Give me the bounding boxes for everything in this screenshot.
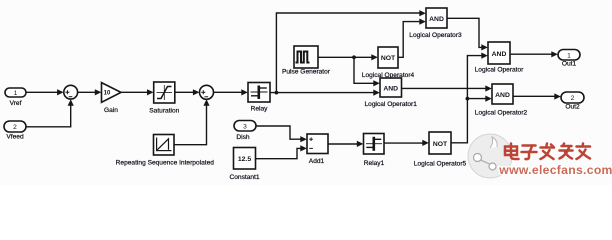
svg-text:Repeating Sequence Interpolate: Repeating Sequence Interpolated [116, 159, 215, 166]
svg-text:AND: AND [383, 85, 398, 92]
svg-text:Relay1: Relay1 [364, 160, 385, 167]
svg-text:Logical Operator5: Logical Operator5 [414, 161, 467, 168]
svg-text:2: 2 [571, 95, 575, 102]
svg-text:Dish: Dish [236, 134, 250, 141]
svg-text:Logical Operator2: Logical Operator2 [475, 110, 528, 117]
svg-text:Constant1: Constant1 [229, 174, 259, 181]
svg-text:Gain: Gain [104, 107, 118, 114]
svg-text:Logical Operator1: Logical Operator1 [364, 101, 417, 108]
svg-text:Add1: Add1 [309, 158, 325, 165]
svg-text:AND: AND [429, 16, 444, 23]
svg-text:10: 10 [104, 91, 111, 97]
svg-text:Logical Operator4: Logical Operator4 [362, 72, 415, 79]
svg-text:1: 1 [567, 53, 571, 60]
svg-text:2: 2 [13, 124, 17, 131]
svg-text:Out2: Out2 [565, 103, 580, 110]
svg-text:AND: AND [492, 51, 507, 58]
svg-text:3: 3 [243, 124, 247, 131]
svg-text:www.elecfans.com: www.elecfans.com [498, 163, 612, 177]
svg-text:NOT: NOT [433, 141, 448, 148]
svg-text:AND: AND [495, 92, 510, 99]
svg-text:Vref: Vref [10, 100, 22, 107]
svg-text:12.5: 12.5 [238, 156, 251, 163]
svg-text:1: 1 [14, 90, 18, 97]
svg-text:Logical Operator: Logical Operator [475, 67, 525, 74]
svg-text:Relay: Relay [251, 106, 269, 113]
svg-text:Logical Operator3: Logical Operator3 [409, 32, 462, 39]
svg-text:Pulse Generator: Pulse Generator [282, 68, 331, 75]
svg-text:NOT: NOT [381, 55, 396, 62]
svg-text:Out1: Out1 [562, 61, 577, 68]
svg-text:Vfeed: Vfeed [6, 134, 24, 141]
svg-text:Saturation: Saturation [149, 108, 179, 115]
